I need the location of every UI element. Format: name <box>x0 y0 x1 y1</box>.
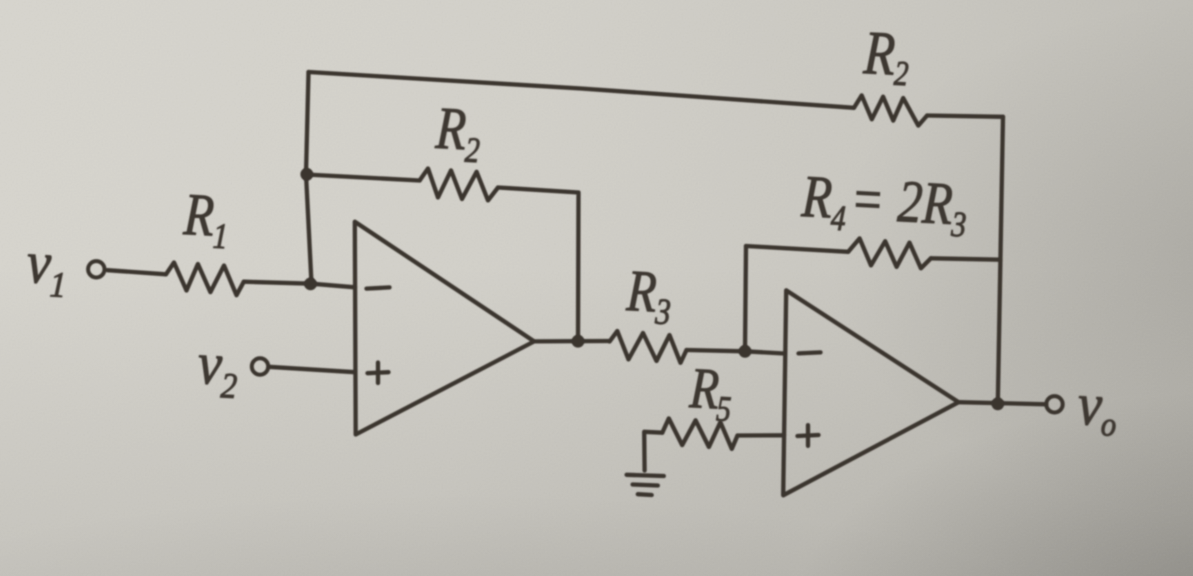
label vo <box>1076 372 1119 444</box>
U2 plus sign <box>798 435 819 436</box>
resistor R2 first stage <box>420 169 498 201</box>
resistor R1 <box>166 263 244 296</box>
terminal v2 <box>252 358 268 374</box>
label R4 = 2R3 <box>799 162 969 245</box>
resistor R2 top <box>854 95 927 125</box>
U1 plus sign <box>368 372 389 373</box>
op-amp U2 <box>783 290 958 495</box>
op-amp U1 <box>355 222 534 435</box>
wire left vertical riser <box>306 72 312 284</box>
terminal v1 <box>88 261 104 277</box>
wire v1 lead <box>108 270 167 274</box>
label R5 <box>687 357 734 430</box>
wire top feedback run <box>309 72 855 108</box>
terminal vo <box>1046 396 1062 412</box>
node U1 output junction <box>572 335 585 348</box>
wire U1 output to R3 <box>534 339 609 344</box>
wire R5 to U2 non-inverting input <box>738 433 785 438</box>
wire R4 branch top <box>746 246 848 252</box>
wire R2 to U1 output drop <box>498 188 579 342</box>
wire U1 feedback branch <box>306 175 420 181</box>
wire R4 to right vertical <box>931 258 1001 259</box>
ground <box>627 475 664 476</box>
label R1 <box>181 180 231 257</box>
resistor R3 <box>610 331 687 363</box>
wire v2 lead <box>269 367 356 372</box>
wire R4 branch riser <box>745 246 746 351</box>
label v2 <box>196 331 240 407</box>
resistor R4 <box>848 238 931 268</box>
label v1 <box>25 230 69 306</box>
resistor R5 <box>662 418 737 449</box>
wire R1 to op-amp U1 inverting input <box>244 282 355 288</box>
U1 minus sign <box>367 287 390 288</box>
wire R2 top to right vertical <box>927 116 1003 117</box>
node U2 output junction <box>991 397 1004 410</box>
node R1/U1 input junction <box>304 278 317 291</box>
wire right vertical drop to output node <box>998 117 1003 404</box>
wire U2 output <box>959 402 1047 404</box>
node U2 inverting junction <box>739 345 752 358</box>
node feedback junction <box>300 168 313 181</box>
label R3 <box>624 258 673 334</box>
wire R3 to U2 inverting input <box>687 350 785 354</box>
label R2 first stage <box>433 94 483 171</box>
wire R5 ground riser <box>644 432 662 471</box>
label R2 top <box>861 18 911 93</box>
U2 minus sign <box>799 352 821 353</box>
